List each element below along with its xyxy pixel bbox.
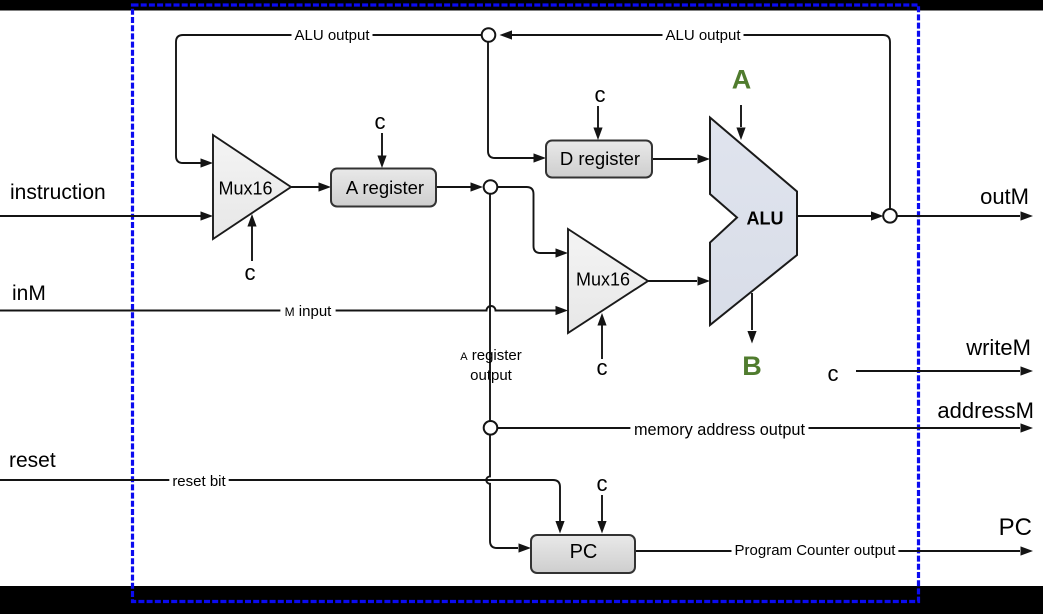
- svg-text:instruction: instruction: [10, 181, 106, 204]
- wire: Mux16 M1 output to A register: [291, 186, 319, 188]
- wire: control bit c to writeM: [856, 370, 1020, 372]
- svg-text:PC: PC: [999, 514, 1032, 541]
- svg-text:M input: M input: [285, 303, 333, 320]
- wire: D register output into ALU x input: [652, 158, 697, 160]
- bottom black letterbox bar: [0, 586, 1043, 614]
- svg-text:A register: A register: [346, 177, 424, 198]
- wire: instruction input to Mux16 M1: [0, 215, 201, 217]
- label: reset bit on reset wire: [169, 471, 228, 492]
- svg-text:A: A: [732, 65, 752, 95]
- wire: node N3 down (hop over reset wire) then right into PC input: [486, 435, 518, 549]
- wire: reset input, right then down into PC top (reset bit): [0, 480, 560, 521]
- wire: A register output to node N2: [436, 186, 471, 188]
- svg-text:c: c: [595, 82, 606, 107]
- wire: node N1 down into D register: [488, 42, 534, 158]
- svg-text:c: c: [597, 471, 608, 496]
- wire: inM input to Mux16 M2 lower input (hop over vertical bus): [0, 306, 556, 311]
- register PC: program counter box: [531, 535, 635, 573]
- wire: PC output to PC pin (Program Counter output): [635, 550, 1020, 552]
- svg-text:reset bit: reset bit: [172, 473, 226, 490]
- label: memory address output: [630, 419, 808, 442]
- node N3 (memory address junction): [484, 421, 498, 435]
- svg-text:writeM: writeM: [965, 335, 1031, 360]
- wire: top-right ALU output run from node N4 up and left into node N1: [510, 35, 890, 210]
- wire: control arrow c into PC (from above): [601, 495, 603, 521]
- svg-text:c: c: [245, 260, 256, 285]
- svg-text:Program Counter output: Program Counter output: [735, 542, 897, 559]
- wire: node N2 right/down to Mux16 M2 upper input: [497, 187, 556, 253]
- ALU polygon: [710, 118, 797, 326]
- label: ALU output (top right run): [663, 25, 744, 46]
- register D: D register box: [546, 141, 652, 178]
- svg-text:Mux16: Mux16: [576, 270, 630, 290]
- wire: Mux16 M2 output into ALU y input: [648, 280, 697, 282]
- node N4 (ALU output / outM junction): [883, 209, 897, 223]
- wire: control arrow c into Mux16 M1 (from below): [251, 226, 253, 261]
- svg-text:D register: D register: [560, 148, 640, 169]
- label: ALU output (left feedback): [292, 25, 373, 46]
- wire: control arrow c into Mux16 M2 (from below): [601, 325, 603, 359]
- svg-text:c: c: [597, 355, 608, 380]
- svg-text:ALU: ALU: [747, 209, 784, 229]
- node N2 (A register output junction): [484, 180, 498, 194]
- label: M input on inM wire: [280, 301, 335, 322]
- mux M1: Mux16 triangle (left): [213, 135, 291, 239]
- svg-text:A register: A register: [460, 347, 522, 364]
- wire: A input arrow into ALU top: [740, 105, 742, 127]
- wire: ALU output feedback loop to Mux16 M1 upper input: [176, 35, 482, 163]
- label: Program Counter output: [732, 540, 899, 561]
- wire: node N2 down (A register output bus) to node N3: [489, 194, 491, 422]
- svg-text:B: B: [742, 351, 762, 381]
- svg-text:inM: inM: [12, 282, 46, 305]
- wire: control arrow c into A register (from above): [381, 133, 383, 156]
- top black letterbox bar: [0, 0, 1043, 11]
- wire: control arrow c into D register (from above): [597, 106, 599, 128]
- svg-text:output: output: [470, 367, 513, 384]
- register A: A register box: [331, 169, 436, 207]
- svg-text:c: c: [828, 361, 839, 386]
- svg-text:c: c: [375, 109, 386, 134]
- svg-text:ALU output: ALU output: [294, 27, 370, 44]
- blue dashed selection border: [133, 5, 919, 602]
- svg-text:reset: reset: [9, 449, 56, 472]
- svg-text:ALU output: ALU output: [665, 27, 741, 44]
- wire: node N3 to addressM (memory address output): [497, 427, 1021, 429]
- svg-text:Mux16: Mux16: [218, 179, 272, 199]
- node N1 (ALU output / top junction): [482, 28, 496, 42]
- svg-text:outM: outM: [980, 184, 1029, 209]
- svg-text:PC: PC: [570, 541, 598, 563]
- svg-text:addressM: addressM: [937, 398, 1034, 423]
- svg-text:memory address output: memory address output: [634, 421, 806, 439]
- wire: ALU output to node N4: [797, 215, 871, 217]
- wire: node N4 to outM: [897, 215, 1021, 217]
- wire: B output arrow out of ALU bottom: [751, 293, 753, 330]
- mux M2: Mux16 triangle (center): [568, 229, 648, 333]
